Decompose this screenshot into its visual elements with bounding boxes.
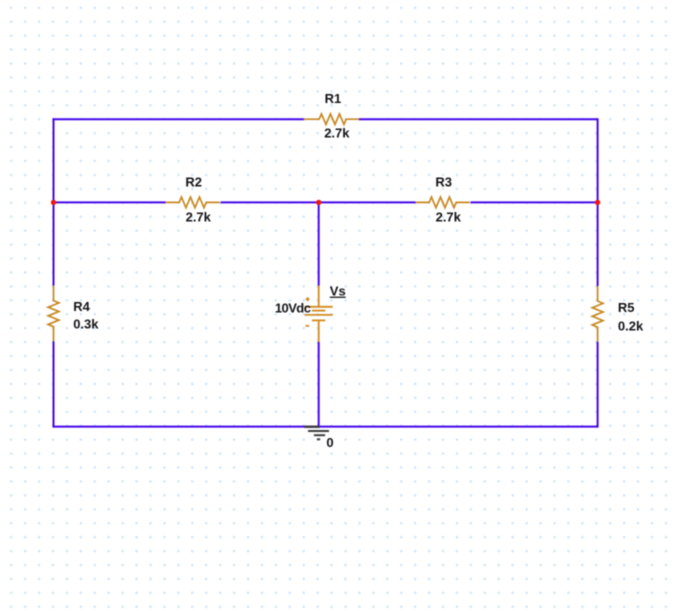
svg-text:R1: R1 [325,91,342,106]
minus mark of Vs [306,325,310,327]
wire left vertical [53,118,55,427]
wire right vertical [597,118,599,427]
svg-text:R4: R4 [73,299,90,314]
svg-text:R2: R2 [185,175,202,190]
svg-text:R3: R3 [435,175,452,190]
resistor R3 [416,197,470,208]
wire middle horizontal right segment [319,201,598,203]
ground 0 [304,427,329,440]
svg-text:2.7k: 2.7k [186,210,212,225]
node junction right (red dot) [595,200,600,205]
svg-text:0.2k: 0.2k [618,318,644,333]
wire bottom horizontal [54,426,598,428]
resistor R2 [166,197,220,208]
resistor R5 [592,286,603,342]
node junction left (red dot) [51,200,56,205]
plus mark of Vs [306,297,310,301]
voltage source Vs (VDC battery) [305,286,333,343]
svg-text:2.7k: 2.7k [436,210,462,225]
svg-text:R5: R5 [618,300,635,315]
resistor R1 [304,114,359,125]
svg-text:0: 0 [326,435,333,450]
wire middle horizontal left segment [54,201,319,203]
svg-text:10Vdc: 10Vdc [275,300,311,315]
wire middle vertical [318,202,320,426]
node junction middle (red dot) [316,200,321,205]
svg-text:Vs: Vs [330,284,346,299]
wire top-left to top-right through R1 (top horizontal) [54,118,598,120]
svg-text:0.3k: 0.3k [73,317,99,332]
resistor R4 [48,286,59,342]
svg-text:2.7k: 2.7k [324,125,350,140]
